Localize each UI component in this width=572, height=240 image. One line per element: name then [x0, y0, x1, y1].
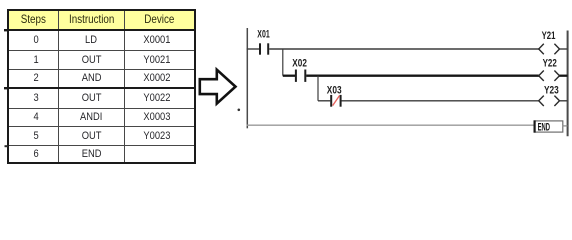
- period dot: [238, 109, 241, 112]
- rung 3 wire: branch to X03: [318, 100, 330, 102]
- NC red slash: [333, 96, 340, 106]
- instruction list table: [7, 9, 196, 164]
- wire coil Y22 to right rail (bold): [560, 75, 568, 77]
- svg-text:Y21: Y21: [542, 30, 556, 42]
- svg-text:X03: X03: [327, 85, 342, 97]
- coil Y21: [539, 44, 560, 54]
- rung 2 wire: X02 to coil Y22 (bold): [306, 75, 539, 77]
- rung 3 wire: X03 to coil Y23: [342, 100, 540, 102]
- END box: [534, 121, 563, 132]
- rung 2 wire: branch to X02 (bold): [283, 75, 295, 77]
- END rung wire: [247, 124, 535, 126]
- svg-text:X01: X01: [257, 29, 269, 41]
- stub left of header border: [4, 29, 8, 31]
- stub left of row-5 border: [5, 145, 9, 147]
- END box bold left bracket: [533, 120, 535, 132]
- contact X01: [260, 43, 268, 54]
- svg-text:Y23: Y23: [544, 84, 559, 96]
- svg-text:X02: X02: [292, 58, 307, 70]
- contact X02: [296, 70, 305, 82]
- rung 1 wire: rail to X01: [247, 48, 260, 50]
- block arrow: [200, 70, 236, 104]
- right rail: [567, 31, 569, 137]
- left rail: [246, 28, 248, 128]
- coil Y23: [539, 96, 560, 106]
- rung 1 wire: X01 to coil Y21: [269, 48, 539, 50]
- coil Y22: [539, 71, 560, 81]
- svg-text:END: END: [538, 122, 550, 134]
- wire coil Y21 to right rail: [560, 48, 568, 50]
- svg-text:Y22: Y22: [543, 58, 557, 70]
- stub left of row-2 thick border: [4, 87, 8, 89]
- wire coil Y23 to right rail: [560, 100, 568, 102]
- wire END box to right rail: [563, 125, 568, 127]
- contact X03 (NC): [331, 95, 340, 107]
- branch 2 vertical: [317, 76, 319, 101]
- branch 1 vertical: [282, 49, 284, 76]
